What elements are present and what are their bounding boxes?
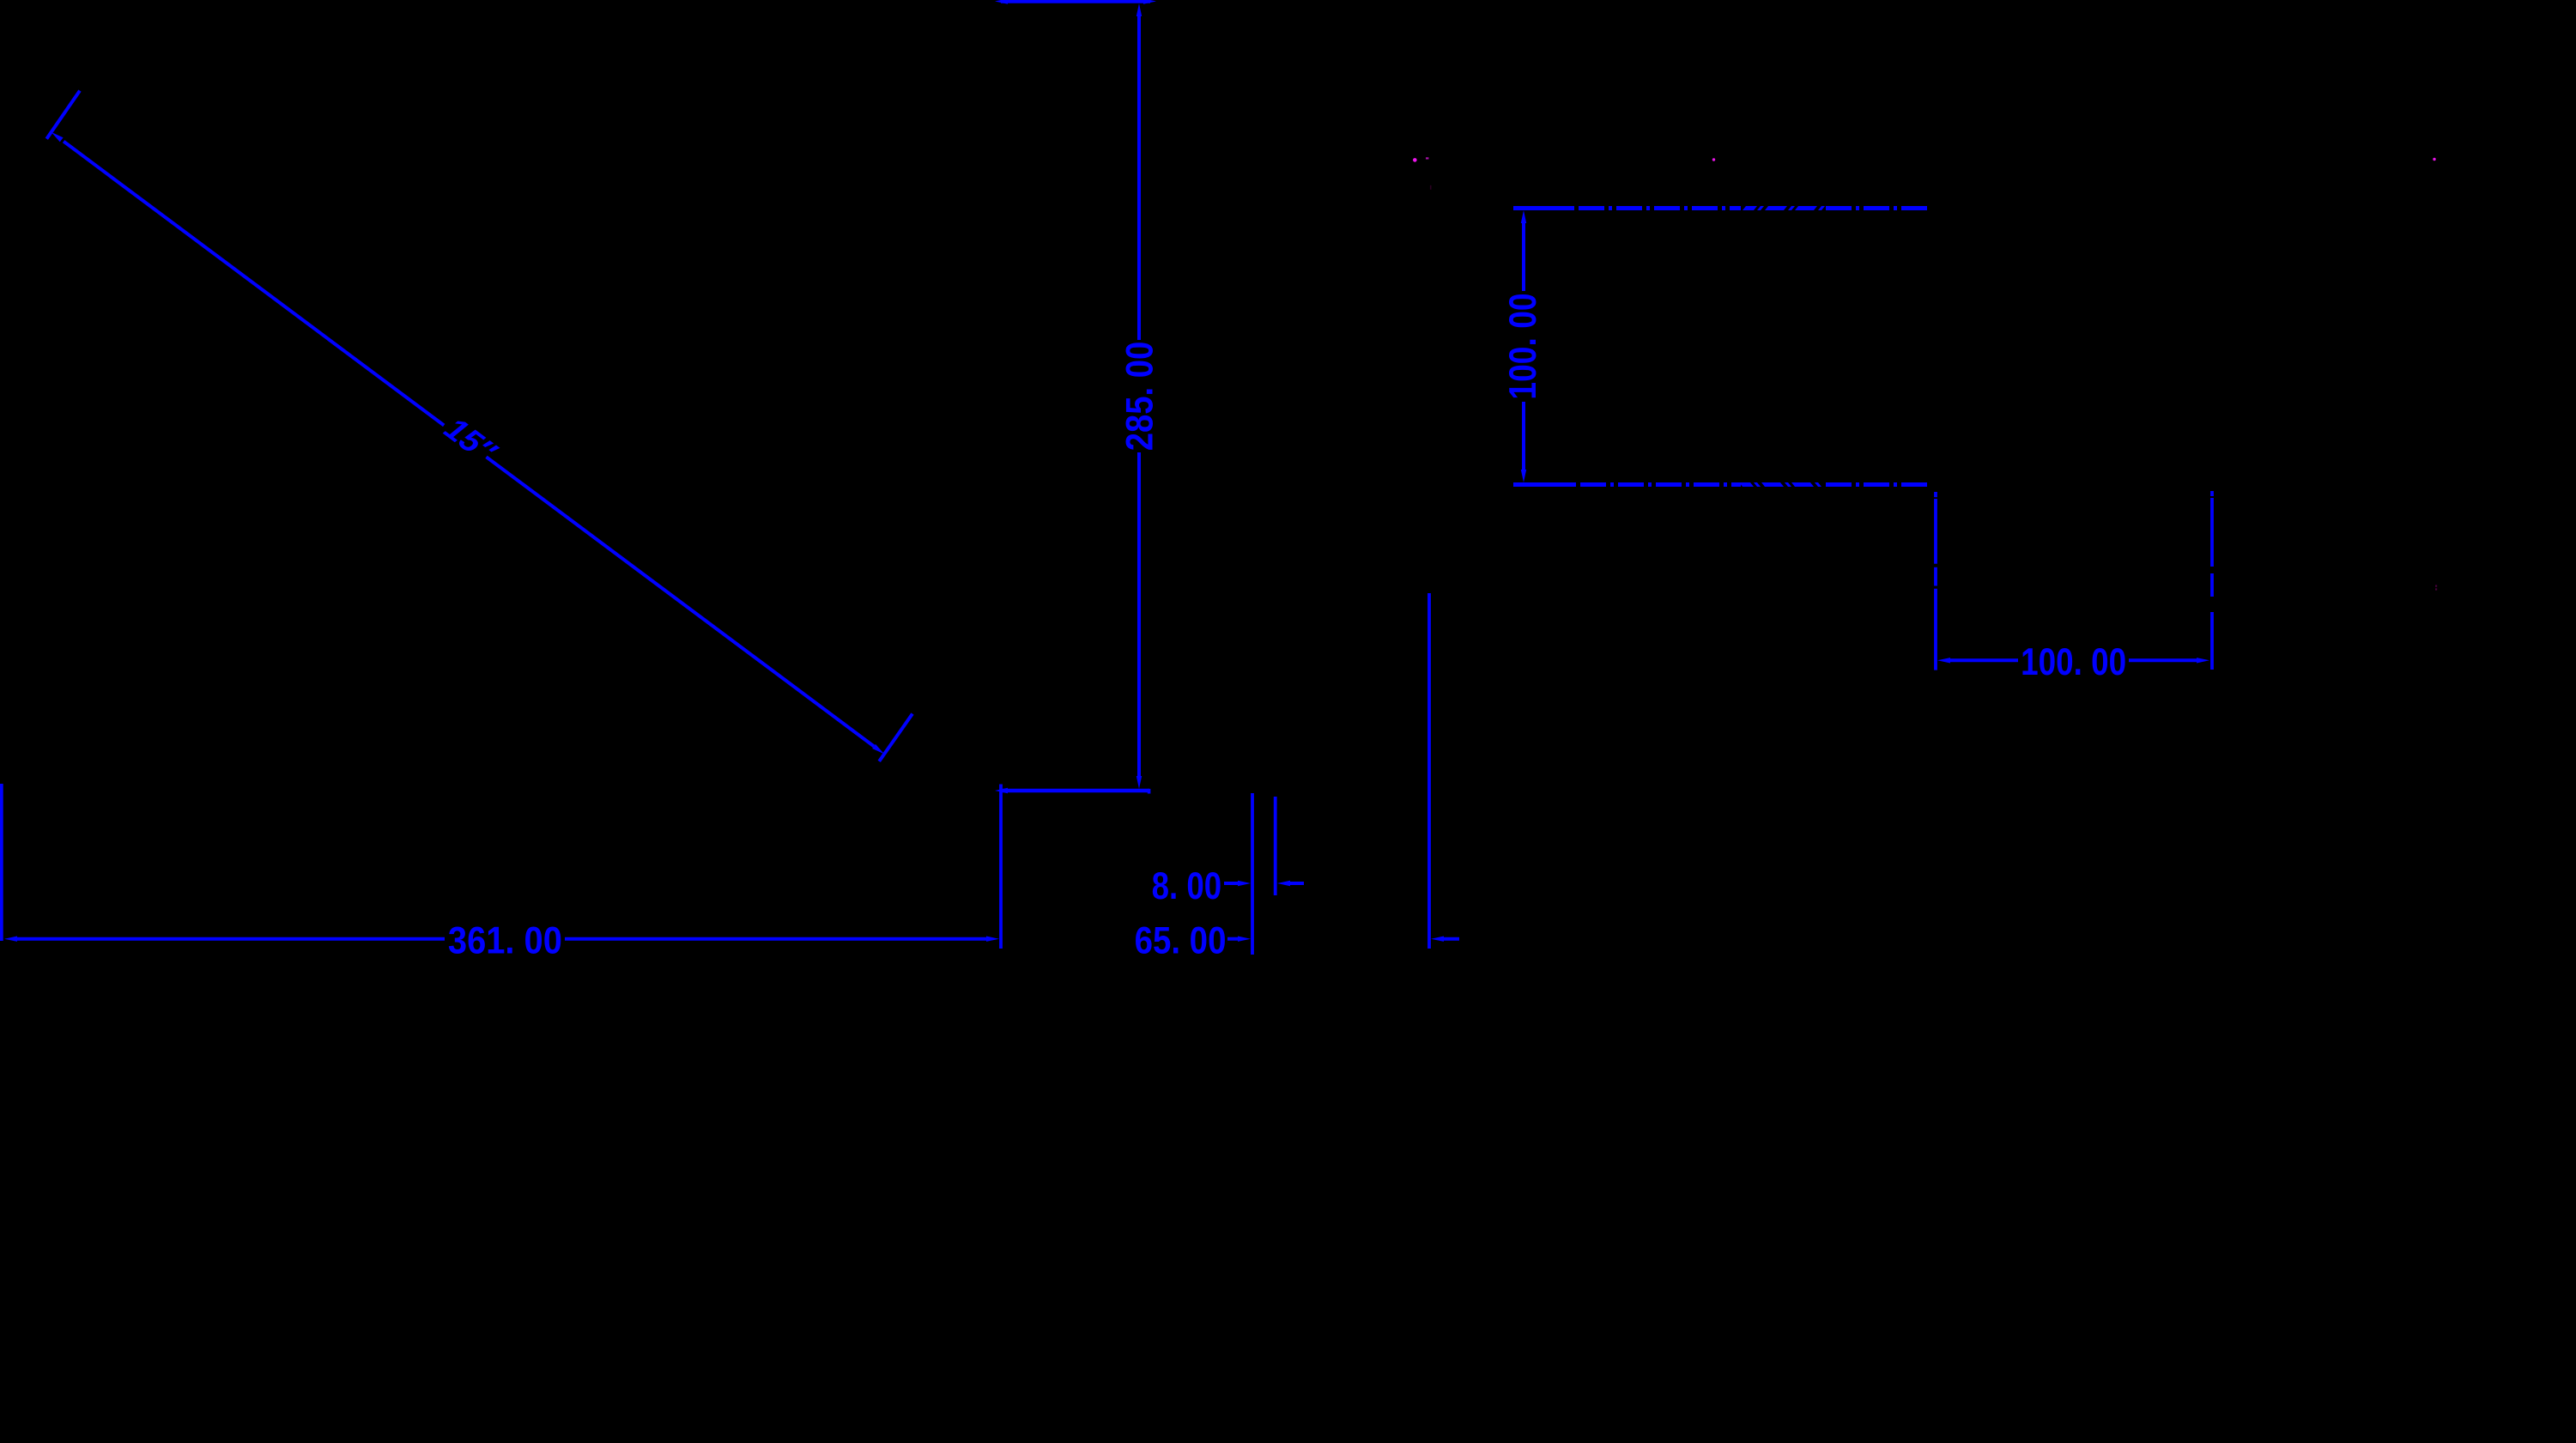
- centerline bottom right: [1513, 482, 1929, 487]
- extension line B x1485.7: [1274, 797, 1277, 895]
- extension line left edge: [0, 784, 3, 941]
- dimension 100.00 vertical line upper segment: [1521, 210, 1526, 291]
- dimension 100.00 horizontal line left segment: [1937, 658, 2018, 663]
- dimension 100.00 horizontal text: [2021, 640, 2126, 683]
- point marker 3: [1712, 158, 1715, 161]
- point marker 6 faint: [2435, 588, 2437, 590]
- dimension 285.00 line lower segment: [1136, 452, 1142, 789]
- dimension 100.00 vertical text: [1501, 293, 1544, 399]
- dimension 65.00 left leader arrow: [1227, 937, 1251, 942]
- dimension 15 inch oblique tick upper: [46, 91, 80, 139]
- dimension 15 inch diagonal line upper segment: [52, 132, 445, 426]
- dimension 8.00 left leader arrow: [1224, 881, 1251, 886]
- extension line x2255 dashed: [1934, 492, 1937, 670]
- point marker 2: [1426, 157, 1428, 159]
- dimension 65.00 right leader arrow: [1431, 937, 1459, 942]
- svg-text:361. 00: 361. 00: [448, 919, 562, 961]
- svg-text:65. 00: 65. 00: [1135, 919, 1227, 961]
- dimension 15 inch diagonal line lower segment: [487, 457, 885, 754]
- dimension 8.00 right leader arrow: [1277, 881, 1304, 886]
- point marker 5 faint: [2435, 585, 2437, 587]
- extension line A x1459: [1251, 793, 1254, 955]
- point marker 7 faint: [1430, 185, 1432, 190]
- dimension 285.00 text: [1118, 342, 1161, 452]
- svg-text:8. 00: 8. 00: [1152, 864, 1222, 907]
- point marker 4: [2433, 158, 2435, 161]
- svg-text:285. 00: 285. 00: [1118, 342, 1161, 452]
- centerline top right: [1513, 206, 1928, 210]
- extension line x1166: [999, 785, 1003, 949]
- dimension 65.00 text: [1135, 919, 1227, 961]
- step dimension line at y 921: [995, 788, 1150, 794]
- dimension 8.00 text: [1152, 864, 1222, 907]
- dimension 361.00 line left segment: [4, 937, 445, 942]
- dimension 361.00 line right segment: [565, 937, 999, 942]
- dimension 100.00 vertical line lower segment: [1521, 402, 1526, 482]
- svg-text:100. 00: 100. 00: [2021, 640, 2126, 683]
- point marker 1: [1413, 158, 1417, 162]
- dimension 100.00 horizontal line right segment: [2129, 658, 2209, 663]
- dimension 15 inch oblique tick lower: [879, 714, 912, 761]
- dimension 285.00 line upper segment: [1136, 3, 1142, 340]
- extension line x2577 dashed: [2210, 491, 2214, 670]
- svg-text:100. 00: 100. 00: [1501, 293, 1544, 399]
- top dimension line: [995, 0, 1156, 4]
- dimension 15 inch text: [435, 408, 506, 473]
- extension line C x1665: [1427, 593, 1431, 949]
- dimension 361.00 text: [448, 919, 562, 961]
